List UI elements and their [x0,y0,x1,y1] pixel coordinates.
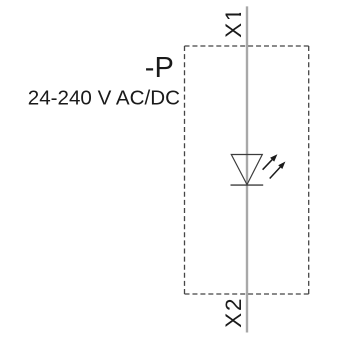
svg-text:X1: X1 [221,7,246,38]
light emission arrow 2 [270,162,286,179]
erase foot serif of digit 1 (lower part) [238,16,242,24]
enclosure (dashed outline of lamp module) [185,46,309,294]
wire W1 (vertical conductor from terminal X1 to terminal X2) [246,6,248,332]
light emission arrow 1 [263,154,278,170]
svg-text:X2: X2 [221,297,246,328]
svg-text:-P: -P [145,52,174,84]
erase foot serif of digit 1 (upper part) [238,8,242,13]
svg-text:24-240 V AC/DC: 24-240 V AC/DC [28,87,180,110]
LED -P : diode triangle (anode) [231,155,262,185]
LED -P : cathode bar [231,184,264,186]
